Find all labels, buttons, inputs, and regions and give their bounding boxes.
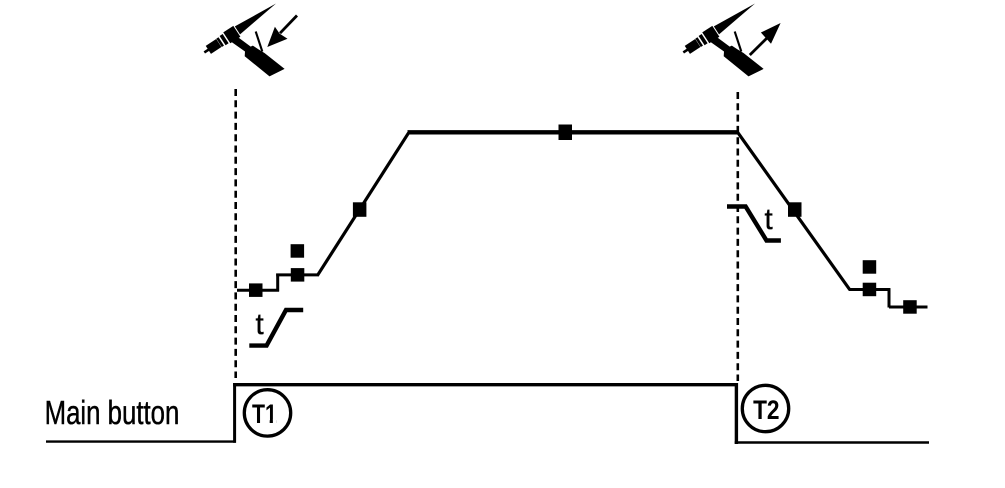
current waveform: final segment <box>889 306 928 309</box>
marker square on second segment <box>291 268 305 282</box>
current waveform: main plateau <box>408 130 739 134</box>
svg-text:T1: T1 <box>252 399 277 429</box>
main button trace: low level right <box>735 441 929 444</box>
marker square floating above second segment <box>291 244 305 258</box>
main button trace: rising edge <box>233 383 236 443</box>
current waveform: up-slope ramp <box>317 133 408 276</box>
marker square on final segment <box>903 300 917 314</box>
torch icon T2 (release trigger) <box>680 0 764 76</box>
svg-text:T2: T2 <box>753 395 779 425</box>
marker square on plateau <box>559 125 573 141</box>
dashed line at T2 <box>736 92 739 381</box>
down-slope time symbol <box>727 207 781 241</box>
dashed line at T1 <box>234 89 237 378</box>
arrow release (up-right) <box>750 23 781 55</box>
marker square on down-slope <box>788 202 802 217</box>
main button trace: high level <box>233 383 738 386</box>
current waveform: start segment <box>237 289 279 292</box>
circle T2 <box>742 385 788 431</box>
svg-text:t: t <box>256 308 264 341</box>
marker square floating above end-crater segment <box>863 260 877 274</box>
svg-text:t: t <box>765 203 773 236</box>
current waveform: step up <box>276 274 279 292</box>
circle T1 <box>244 390 290 436</box>
current waveform: end-crater segment <box>849 288 890 291</box>
current waveform: second segment <box>276 273 318 276</box>
marker square on end-crater segment <box>863 283 877 297</box>
current waveform: down-slope ramp <box>737 132 850 290</box>
current waveform: step down <box>888 289 891 308</box>
marker square on up-slope <box>353 202 367 217</box>
main button trace: falling edge <box>735 383 738 444</box>
arrow press (down-left) <box>267 16 297 48</box>
torch icon T1 (press trigger) <box>201 0 285 76</box>
marker square on start segment <box>249 283 263 297</box>
main button trace: low level left <box>46 440 236 442</box>
svg-text:Main button: Main button <box>45 395 180 432</box>
up-slope time symbol <box>249 310 303 346</box>
